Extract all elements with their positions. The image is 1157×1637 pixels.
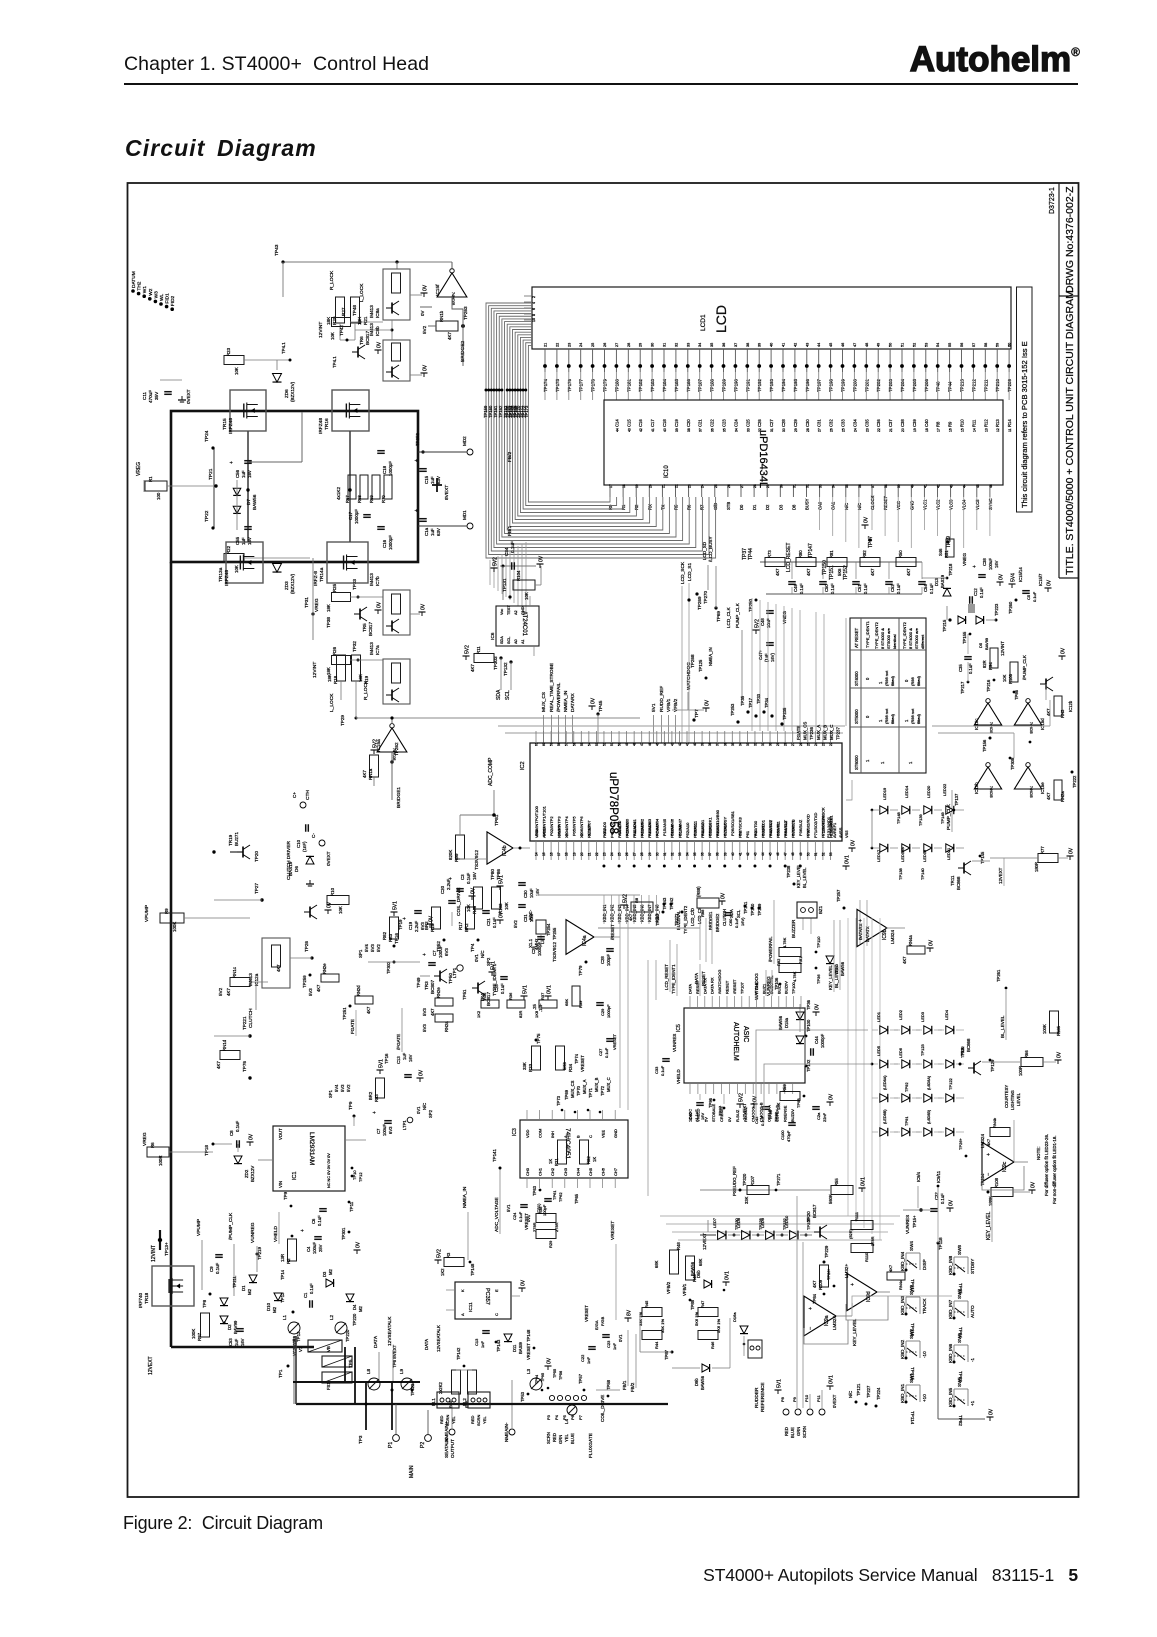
svg-text:IM413: IM413	[369, 323, 374, 336]
svg-text:SW6: SW6	[957, 1333, 962, 1343]
svg-text:12: 12	[996, 428, 1000, 432]
svg-text:TP69: TP69	[716, 611, 721, 622]
wire bl chain	[1013, 1120, 1015, 1162]
svg-text:0V1: 0V1	[615, 1099, 616, 1100]
svg-text:R73: R73	[767, 550, 772, 558]
svg-text:TP183: TP183	[650, 379, 655, 392]
svg-text:1000pF: 1000pF	[606, 1004, 611, 1018]
svg-text:R111: R111	[854, 1211, 859, 1221]
resistor R6 100R	[142, 1132, 213, 1166]
svg-text:R48: R48	[676, 1242, 681, 1250]
svg-text:TP262: TP262	[394, 742, 399, 756]
IC12a IM413	[248, 938, 290, 988]
svg-text:TP259: TP259	[302, 975, 307, 988]
svg-text:R82: R82	[862, 550, 867, 558]
svg-text:39: 39	[723, 852, 727, 856]
svg-text:C25: C25	[494, 984, 499, 992]
svg-text:4K7: 4K7	[470, 664, 475, 672]
svg-text:A: A	[460, 1313, 465, 1316]
svg-text:LCD: LCD	[713, 305, 729, 333]
svg-text:5K6 1%: 5K6 1%	[694, 1312, 699, 1326]
svg-text:COM: COM	[538, 1129, 543, 1138]
svg-text:5K6: 5K6	[837, 568, 842, 576]
svg-text:RN2a: RN2a	[1060, 791, 1065, 802]
mux control labels	[556, 1077, 616, 1113]
svg-text:TP191: TP191	[745, 379, 750, 392]
svg-text:STB: STB	[726, 502, 731, 510]
svg-text:38: 38	[884, 484, 888, 488]
mux IC3 74HC4051	[512, 1120, 628, 1178]
svg-text:33: 33	[746, 428, 750, 432]
svg-text:16V: 16V	[247, 470, 252, 478]
resistor R44 33K	[642, 1319, 665, 1349]
svg-text:41: 41	[651, 428, 655, 432]
svg-text:22: 22	[595, 852, 599, 856]
svg-text:0.1uF: 0.1uF	[317, 1215, 322, 1226]
resistor R9 100K	[144, 905, 250, 932]
svg-text:TP24: TP24	[204, 430, 210, 442]
svg-text:1nF: 1nF	[612, 1343, 617, 1350]
svg-text:5V2: 5V2	[218, 987, 223, 996]
svg-text:+: +	[972, 565, 978, 568]
svg-text:35: 35	[723, 428, 727, 432]
svg-text:0V: 0V	[1047, 579, 1053, 586]
svg-text:TP132: TP132	[503, 662, 508, 676]
svg-text:/POWERFAIL: /POWERFAIL	[556, 682, 562, 712]
svg-text:100pF: 100pF	[606, 954, 611, 966]
svg-text:TP254: TP254	[546, 923, 551, 936]
svg-text:12VINT: 12VINT	[1000, 641, 1005, 656]
svg-text:0V: 0V	[753, 1095, 759, 1102]
heavy rail left vertical	[170, 562, 173, 1347]
wire CPU to asic	[700, 918, 712, 964]
svg-text:43: 43	[627, 428, 631, 432]
svg-text:P62: P62	[753, 830, 758, 838]
resistor RN1b 4K7	[420, 296, 468, 340]
svg-text:TP80: TP80	[490, 869, 495, 880]
svg-text:10K: 10K	[234, 565, 239, 573]
svg-text:AVREF1: AVREF1	[832, 822, 837, 838]
svg-text:NMEA_IN: NMEA_IN	[563, 690, 569, 712]
svg-text:(LED8B): (LED8B)	[883, 1109, 887, 1124]
svg-text:4K7: 4K7	[216, 1061, 221, 1069]
svg-text:38: 38	[716, 852, 720, 856]
svg-text:34: 34	[686, 852, 690, 856]
svg-text:10uF: 10uF	[529, 888, 534, 898]
svg-text:R_LOCK: R_LOCK	[329, 270, 335, 290]
svg-text:0.1uF: 0.1uF	[518, 1211, 523, 1222]
svg-text:0VEXT: 0VEXT	[326, 851, 331, 866]
svg-text:R34: R34	[568, 1063, 573, 1072]
svg-text:IC4a: IC4a	[582, 935, 588, 946]
svg-text:FGATE: FGATE	[796, 726, 801, 740]
svg-text:TP197: TP197	[817, 379, 822, 392]
svg-text:TP140: TP140	[920, 867, 925, 880]
svg-text:RN3: RN3	[1060, 709, 1065, 718]
svg-text:LED9: LED9	[760, 1217, 765, 1228]
varistor VB	[322, 1346, 352, 1367]
svg-text:TP218: TP218	[948, 563, 953, 576]
IC5 pins	[688, 970, 802, 1122]
svg-text:KBD_IN7: KBD_IN7	[647, 904, 652, 922]
svg-text:C27: C27	[598, 1048, 603, 1056]
svg-text:4K7: 4K7	[902, 956, 907, 964]
svg-text:1K: 1K	[548, 1159, 553, 1164]
svg-text:BAS19: BAS19	[940, 574, 945, 588]
svg-text:278R: 278R	[554, 1222, 559, 1232]
svg-text:28: 28	[640, 852, 644, 856]
svg-text:R70: R70	[381, 495, 386, 503]
buzzer BZ1	[791, 902, 823, 938]
resistor R18 18K	[327, 655, 346, 684]
svg-text:TP253: TP253	[730, 703, 735, 716]
svg-text:VLC4: VLC4	[962, 499, 967, 510]
decoupling row R73-R50 C49-C54	[760, 550, 934, 594]
svg-text:LCD_SCK: LCD_SCK	[680, 561, 686, 584]
svg-text:(L6D8B): (L6D8B)	[927, 1109, 931, 1124]
svg-text:4K7: 4K7	[316, 984, 321, 992]
svg-text:IRF740: IRF740	[138, 1292, 143, 1308]
nets VFB	[654, 1242, 703, 1310]
svg-text:TH2: TH2	[137, 281, 143, 290]
net SDA SCL	[496, 658, 511, 700]
capacitor C18 1000pF	[377, 451, 393, 476]
drawing number D3723-1	[1049, 187, 1056, 214]
svg-text:P FAIL: P FAIL	[754, 981, 759, 994]
net KEY_LEVEL right	[852, 1318, 858, 1346]
MOSFET TR16 IRFZ48	[318, 390, 369, 434]
svg-text:IC15/7: IC15/7	[1038, 573, 1043, 586]
svg-text:P43/AD3: P43/AD3	[617, 821, 622, 838]
resistor R17 BR2	[458, 907, 480, 952]
net label R_LOCK	[329, 270, 335, 290]
svg-text:TP29: TP29	[340, 715, 345, 726]
svg-text:51: 51	[610, 742, 614, 746]
varistor V1 VC2885	[292, 1335, 342, 1356]
svg-text:R107: R107	[750, 1175, 755, 1186]
svg-text:12VSEATALK: 12VSEATALK	[436, 1325, 441, 1352]
resistor R40 10K	[466, 887, 483, 914]
connector P1	[388, 1404, 399, 1448]
resistor R21 18K	[351, 297, 369, 325]
wires ASIC down	[700, 1094, 724, 1104]
svg-text:TP192: TP192	[757, 379, 762, 392]
svg-text:46: 46	[776, 852, 780, 856]
crystal X1 4MHz	[528, 920, 557, 950]
rudder reference connector	[754, 1375, 837, 1438]
svg-text:ASIC: ASIC	[742, 1026, 749, 1042]
svg-text:GRN: GRN	[796, 1427, 801, 1436]
svg-text:C28: C28	[600, 956, 605, 964]
svg-text:C20: C20	[686, 419, 691, 427]
svg-text:60: 60	[1008, 343, 1012, 347]
svg-text:R29: R29	[548, 1240, 553, 1248]
svg-text:R99: R99	[454, 853, 459, 862]
resistor R47 5K6	[694, 1300, 718, 1326]
svg-text:4K7: 4K7	[806, 568, 811, 576]
labels VPUMP PUMP_CLK	[196, 1212, 234, 1296]
svg-text:LTP1: LTP1	[402, 1120, 407, 1130]
svg-text:R6: R6	[150, 1142, 155, 1148]
svg-text:WL: WL	[159, 293, 165, 301]
diode D15b BAW56	[826, 956, 845, 976]
svg-text:KEY_LEVEL: KEY_LEVEL	[852, 1318, 858, 1346]
svg-text:identical: identical	[892, 634, 897, 649]
svg-text:1uF: 1uF	[241, 470, 246, 478]
svg-text:5V3: 5V3	[308, 988, 313, 996]
svg-text:if ST4000 &: if ST4000 &	[908, 628, 913, 649]
svg-text:74HC05: 74HC05	[989, 786, 993, 798]
heavy rail stub bottom	[293, 1347, 420, 1430]
label VHELD	[273, 1191, 354, 1244]
net L_LOCK TP29	[329, 681, 640, 726]
svg-text:P8: P8	[780, 1396, 785, 1402]
svg-text:C60: C60	[728, 918, 733, 926]
svg-text:60: 60	[542, 742, 546, 746]
svg-text:20: 20	[580, 852, 584, 856]
resistor R22 10K	[224, 545, 310, 573]
FGATE cluster	[302, 963, 402, 1052]
svg-text:R83: R83	[374, 1094, 379, 1102]
svg-text:R12: R12	[983, 419, 988, 427]
svg-text:35V: 35V	[154, 391, 159, 400]
svg-text:SCL: SCL	[507, 637, 511, 644]
svg-text:1uF: 1uF	[430, 476, 435, 484]
svg-text:C37: C37	[888, 419, 893, 427]
svg-text:VFB/2: VFB/2	[666, 1281, 671, 1294]
note box PCB issue	[1017, 287, 1033, 512]
resistor RN2a 4K7	[1046, 771, 1077, 803]
svg-text:4: 4	[532, 302, 536, 304]
svg-text:RSENSE: RSENSE	[782, 1105, 787, 1122]
svg-text:TP173: TP173	[524, 405, 529, 418]
capacitor C11 470uF 35V	[142, 380, 191, 404]
inductor L3	[520, 1357, 553, 1402]
svg-text:LED21: LED21	[946, 847, 951, 860]
svg-text:Vcc: Vcc	[500, 609, 504, 615]
test point TP57	[578, 1373, 620, 1422]
svg-text:16V): 16V)	[740, 917, 745, 926]
svg-text:470pF: 470pF	[786, 1130, 791, 1142]
svg-text:TP74: TP74	[574, 1053, 579, 1064]
svg-text:LIGHTING: LIGHTING	[1010, 1090, 1015, 1110]
svg-text:R109: R109	[818, 1279, 823, 1290]
resistor R99 820K	[448, 815, 465, 862]
svg-text:0V: 0V	[423, 284, 429, 291]
net LCD_SCK	[680, 561, 702, 743]
svg-text:TP224: TP224	[876, 1387, 881, 1400]
svg-text:SW2: SW2	[909, 1329, 914, 1339]
svg-text:MD2: MD2	[462, 436, 467, 446]
svg-text:(CB1): (CB1)	[536, 1203, 541, 1214]
svg-text:TP17: TP17	[748, 697, 753, 708]
svg-text:TP75: TP75	[536, 1033, 541, 1044]
svg-text:25: 25	[714, 484, 718, 488]
svg-text:IC9/4: IC9/4	[916, 1171, 921, 1182]
svg-text:L1: L1	[282, 1314, 287, 1320]
svg-text:0V: 0V	[999, 573, 1005, 580]
svg-text:BAV99: BAV99	[984, 637, 989, 650]
svg-text:TR11: TR11	[950, 875, 955, 886]
svg-text:0V: 0V	[521, 1279, 527, 1286]
svg-text:44: 44	[963, 484, 967, 488]
svg-text:1: 1	[904, 719, 909, 722]
svg-text:LED20: LED20	[926, 785, 931, 798]
svg-text:D9b: D9b	[694, 1378, 699, 1386]
svg-text:TP79: TP79	[578, 965, 583, 976]
svg-text:IC6: IC6	[490, 632, 496, 640]
resistor R55 560K	[810, 1177, 867, 1204]
label VRESET tall	[610, 1221, 616, 1320]
svg-text:+: +	[422, 953, 428, 956]
svg-text:63V: 63V	[436, 528, 441, 536]
svg-text:FID1: FID1	[165, 293, 171, 304]
svg-text:TP97: TP97	[718, 1105, 723, 1116]
svg-text:PL1: PL1	[431, 1398, 436, 1406]
svg-text:M2: M2	[247, 1288, 252, 1295]
svg-text:0V: 0V	[829, 1093, 835, 1100]
svg-text:TP142: TP142	[456, 1347, 461, 1360]
svg-text:1: 1	[880, 761, 885, 764]
inverter IC15d	[1014, 699, 1045, 734]
svg-text:TR18: TR18	[144, 1292, 149, 1304]
keyswitch SW4 DISP	[900, 1237, 943, 1293]
svg-text:34: 34	[734, 428, 738, 432]
svg-text:C36: C36	[876, 419, 881, 427]
svg-text:42: 42	[937, 484, 941, 488]
svg-text:16: 16	[949, 428, 953, 432]
svg-text:TP131: TP131	[502, 578, 507, 592]
svg-text:4K7: 4K7	[986, 1138, 991, 1146]
svg-text:C30: C30	[805, 419, 810, 427]
svg-text:74HC4051: 74HC4051	[564, 1128, 571, 1159]
svg-text:14: 14	[972, 428, 976, 432]
svg-text:100uF: 100uF	[438, 945, 443, 958]
svg-text:L_LOCK: L_LOCK	[329, 693, 335, 712]
svg-text:TP194: TP194	[781, 379, 786, 392]
svg-text:21: 21	[889, 428, 893, 432]
svg-text:KBD_IN2: KBD_IN2	[610, 904, 615, 922]
svg-text:TP10: TP10	[352, 1170, 357, 1180]
mux lower labels	[506, 1185, 590, 1222]
regulator support	[328, 1084, 433, 1136]
svg-text:1000pF: 1000pF	[820, 1033, 825, 1048]
capacitor C55 1uF 16V	[235, 527, 252, 545]
svg-text:R80: R80	[798, 550, 803, 558]
resistor R107 33K	[744, 1173, 781, 1204]
svg-text:+: +	[372, 1111, 378, 1114]
svg-text:+1.1uF: +1.1uF	[694, 1109, 699, 1122]
inductor L4	[564, 1405, 577, 1424]
svg-text:TP13: TP13	[280, 1292, 285, 1303]
svg-text:TP94: TP94	[535, 1375, 539, 1384]
resistor R83 R82	[382, 901, 403, 948]
svg-text:R14: R14	[1007, 419, 1012, 427]
svg-text:1000pF: 1000pF	[354, 509, 359, 524]
svg-text:FB/1: FB/1	[507, 526, 513, 536]
capacitor C4 100uF 25V	[300, 1227, 362, 1254]
svg-text:PSEUDO_REF: PSEUDO_REF	[732, 1166, 737, 1196]
svg-text:R97: R97	[197, 1332, 202, 1341]
svg-text:TP203: TP203	[888, 379, 893, 392]
resistors R38 R29 27R8	[524, 1206, 559, 1248]
svg-text:A2: A2	[514, 610, 518, 615]
svg-text:5V3: 5V3	[340, 1084, 345, 1092]
svg-text:TP269: TP269	[697, 596, 702, 610]
svg-text:TYPE_IDENT2: TYPE_IDENT2	[902, 621, 907, 649]
svg-text:BAW56: BAW56	[778, 1015, 783, 1030]
svg-text:100uF: 100uF	[382, 1124, 387, 1136]
capacitor C7 100uF	[422, 945, 449, 965]
resistor RN4b 4K7	[986, 1117, 1014, 1146]
capacitor C30 10uF 16V	[518, 883, 540, 898]
svg-text:R13: R13	[995, 419, 1000, 427]
svg-text:C28: C28	[781, 419, 786, 427]
transistor TR9 BC868	[960, 1038, 1020, 1075]
svg-text:D15a: D15a	[784, 1017, 789, 1028]
IC7a IM413	[363, 603, 427, 704]
svg-text:33: 33	[686, 343, 690, 347]
resistors R65 R76 2x2K2	[438, 1347, 477, 1408]
svg-text:BUZZER: BUZZER	[791, 919, 796, 938]
svg-text:SDA: SDA	[496, 689, 502, 700]
svg-text:42: 42	[678, 742, 682, 746]
svg-text:TP21: TP21	[208, 468, 214, 480]
svg-text:5V2: 5V2	[437, 1249, 443, 1258]
svg-text:TP267: TP267	[655, 913, 660, 926]
svg-text:0V1: 0V1	[416, 1106, 421, 1114]
resistor R46 5K6	[698, 1319, 721, 1349]
svg-text:AVSS: AVSS	[838, 827, 843, 838]
ASIC support parts	[654, 1034, 779, 1126]
wires table to CPU	[846, 618, 852, 800]
svg-text:TP4.1: TP4.1	[332, 356, 337, 368]
keyswitch SW5 +1	[948, 1377, 975, 1427]
keypad bus wire	[938, 1243, 995, 1421]
svg-text:0V: 0V	[949, 1199, 955, 1206]
svg-text:50: 50	[806, 852, 810, 856]
svg-text:YEL: YEL	[564, 1433, 569, 1442]
svg-text:TP220: TP220	[345, 1329, 350, 1342]
svg-text:LED6: LED6	[898, 1047, 903, 1058]
svg-text:2: 2	[532, 296, 536, 298]
svg-text:12VEXT: 12VEXT	[148, 1356, 154, 1375]
svg-text:(R98 not: (R98 not	[910, 708, 915, 724]
svg-text:TP238: TP238	[786, 865, 791, 878]
svg-text:DATARX: DATARX	[570, 692, 576, 712]
svg-text:ADC_COMP: ADC_COMP	[488, 757, 494, 786]
svg-text:12VEXT: 12VEXT	[742, 1103, 747, 1120]
resistor R97 100K	[191, 1313, 210, 1341]
svg-text:IC9c: IC9c	[1002, 1161, 1008, 1172]
capacitor C10 1nF	[296, 824, 308, 852]
svg-text:0V1: 0V1	[725, 1271, 731, 1280]
svg-text:VFB/1: VFB/1	[666, 698, 672, 712]
svg-text:D6: D6	[294, 866, 299, 872]
svg-text:D3: D3	[322, 1271, 327, 1277]
svg-text:5V2: 5V2	[755, 619, 761, 628]
capacitor C25 0.1uF	[489, 961, 508, 994]
svg-text:IC9/11: IC9/11	[936, 1170, 941, 1183]
resistor R10 10K	[327, 887, 349, 914]
svg-text:ADC_VOLTAGE: ADC_VOLTAGE	[494, 1197, 500, 1232]
svg-text:BUSY: BUSY	[805, 498, 810, 510]
svg-text:TP223: TP223	[994, 603, 999, 616]
svg-text:82R: 82R	[982, 660, 987, 668]
svg-text:ZD3: ZD3	[284, 581, 289, 590]
svg-text:0.1uF: 0.1uF	[466, 872, 471, 884]
svg-text:LM2931AM: LM2931AM	[308, 1132, 315, 1165]
